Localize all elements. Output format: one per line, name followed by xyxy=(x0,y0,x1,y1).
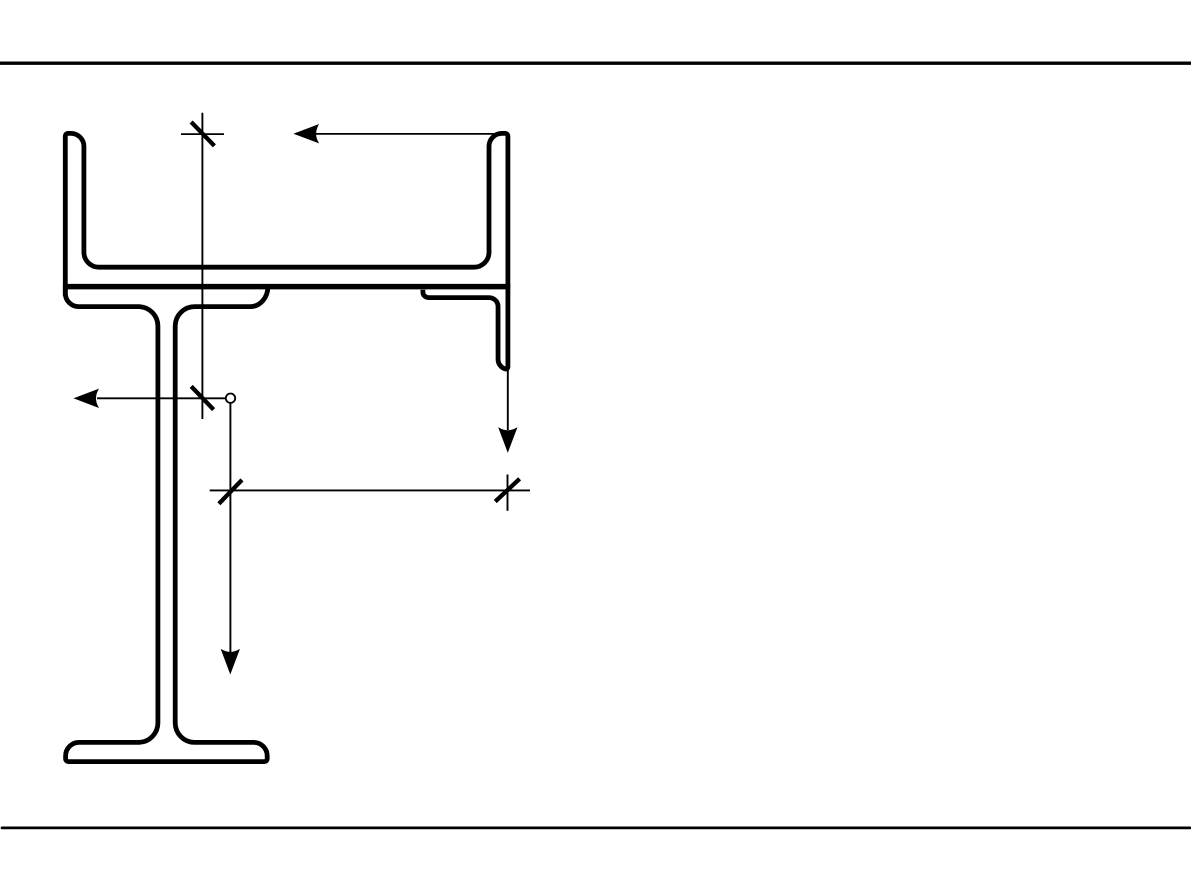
slash tick middle left xyxy=(219,480,242,504)
dimension line short horizontal at flange top xyxy=(181,133,224,135)
extension line below right slash xyxy=(507,475,509,511)
arrowhead down centroid xyxy=(222,650,239,673)
dimension line horizontal middle xyxy=(210,489,530,491)
channel cap outline xyxy=(65,133,508,369)
dimension line vertical right with arrow xyxy=(507,370,509,430)
top frame rule xyxy=(0,62,1191,65)
arrowhead left at top xyxy=(295,125,318,142)
slash tick at centroid line xyxy=(191,386,213,409)
I-beam outline xyxy=(65,284,268,762)
arrowhead down right xyxy=(499,428,516,451)
dimension line horizontal top with arrow xyxy=(296,133,508,135)
dimension line vertical centroid with arrow xyxy=(229,403,231,652)
dimension line horizontal centroid with arrow xyxy=(97,397,226,399)
centroid circle xyxy=(226,394,235,403)
dimension line vertical upper xyxy=(201,113,203,419)
contact line channel/beam xyxy=(63,284,510,290)
slash tick middle right xyxy=(495,479,519,502)
arrowhead left at centroid line xyxy=(75,390,98,407)
bottom frame rule xyxy=(2,827,1190,830)
slash tick top xyxy=(191,122,214,146)
